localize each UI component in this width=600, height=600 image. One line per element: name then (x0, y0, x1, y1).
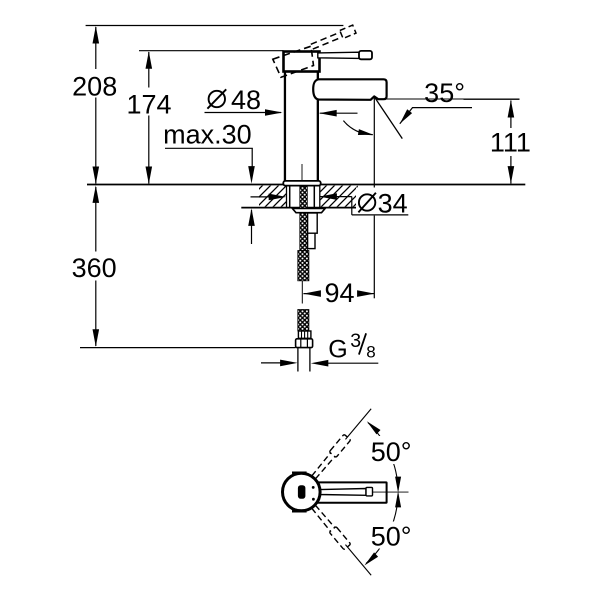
svg-text:94: 94 (324, 278, 354, 308)
hose braid upper (298, 251, 309, 281)
solid lever shaft (318, 52, 359, 58)
mounting nut plate (292, 208, 325, 212)
svg-text:G: G (328, 335, 347, 363)
dim 111 line (510, 101, 512, 129)
dim Ø48 label (209, 91, 225, 107)
svg-text:8: 8 (366, 342, 375, 361)
dim 94 (303, 293, 320, 295)
mounting stud (308, 213, 318, 233)
shank tube left (289, 186, 291, 208)
Ø34 left arrow (251, 196, 274, 198)
text 50° lower (368, 522, 414, 549)
base plate (283, 181, 320, 186)
plan inner lever tip block (366, 487, 373, 496)
dim 360 line (95, 187, 97, 252)
body interior white (286, 71, 316, 181)
connection tube left/right (297, 348, 299, 372)
plan centerline (373, 491, 409, 493)
35° extension line from spout corner (387, 98, 520, 100)
svg-text:3: 3 (350, 330, 361, 352)
aerator vertical axis line (373, 97, 375, 188)
dashed lever plan lower (50° down) (310, 504, 374, 578)
svg-text:360: 360 (72, 253, 117, 283)
counter bottom line (241, 207, 357, 209)
plan flats (292, 472, 307, 474)
angle arc lower 50° (366, 494, 398, 564)
dim 174 line (148, 52, 150, 88)
angle arc with arrow (343, 121, 372, 135)
hose braid lower (298, 310, 309, 332)
svg-text:35°: 35° (424, 78, 465, 108)
360 bottom ref line (80, 347, 296, 349)
dashed lever plan upper (50° up) (310, 406, 374, 480)
svg-text:34: 34 (378, 189, 408, 219)
plan inner lever shaft (320, 489, 367, 496)
plan circle (body) (283, 473, 321, 511)
svg-text:50°: 50° (371, 522, 412, 552)
plan cartridge blob (298, 485, 306, 499)
cap (cartridge housing) (284, 52, 320, 72)
svg-text:174: 174 (126, 89, 171, 119)
centerline in body base (301, 164, 303, 181)
dashed cap (open position) (273, 46, 314, 77)
G3/8 arrows (261, 362, 282, 364)
crimp collar (298, 331, 311, 338)
solid lever tip block (359, 51, 372, 59)
dashed lever (open position) (311, 32, 341, 44)
35° leader line and arrow (400, 108, 472, 124)
counter hole left edge (286, 185, 288, 207)
svg-text:max.30: max.30 (163, 119, 252, 149)
counter hatch left (259, 186, 286, 207)
counter hatch right (320, 186, 358, 207)
svg-text:48: 48 (231, 85, 261, 115)
Ø34 label with white bg (356, 188, 410, 214)
hose centerline in break (301, 281, 303, 304)
counter top line (87, 184, 525, 186)
dim ref line top (208) (86, 25, 344, 27)
faucet body left edge (284, 71, 286, 182)
dim 208 line (95, 27, 97, 69)
svg-text:111: 111 (490, 127, 531, 157)
35 deg reference line to 111 (464, 98, 520, 100)
faucet body right edge upper (317, 71, 319, 81)
Ø48 right arrow (320, 112, 358, 114)
faucet body right edge lower (317, 98, 319, 181)
svg-text:50°: 50° (371, 437, 412, 467)
angle arc upper 50° (368, 423, 398, 491)
shank tube right (313, 186, 315, 208)
dim ref line 174 (139, 50, 284, 52)
counter hole right edge (319, 185, 321, 207)
threaded rod (crosshatch) (300, 187, 308, 251)
plan lever outer rect (315, 482, 387, 502)
text 50° upper (370, 436, 415, 464)
svg-text:208: 208 (72, 71, 117, 101)
hose nut (296, 339, 313, 348)
aerator slant line 35deg (374, 97, 402, 139)
spout (313, 79, 386, 100)
plan screw dots (312, 486, 315, 489)
